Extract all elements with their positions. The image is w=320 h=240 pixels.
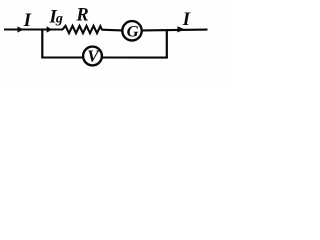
svg-text:g: g xyxy=(55,12,63,27)
svg-text:V: V xyxy=(87,46,100,65)
svg-text:I: I xyxy=(182,9,191,30)
svg-text:I: I xyxy=(23,10,32,31)
svg-text:G: G xyxy=(127,23,139,40)
svg-text:R: R xyxy=(75,6,88,26)
